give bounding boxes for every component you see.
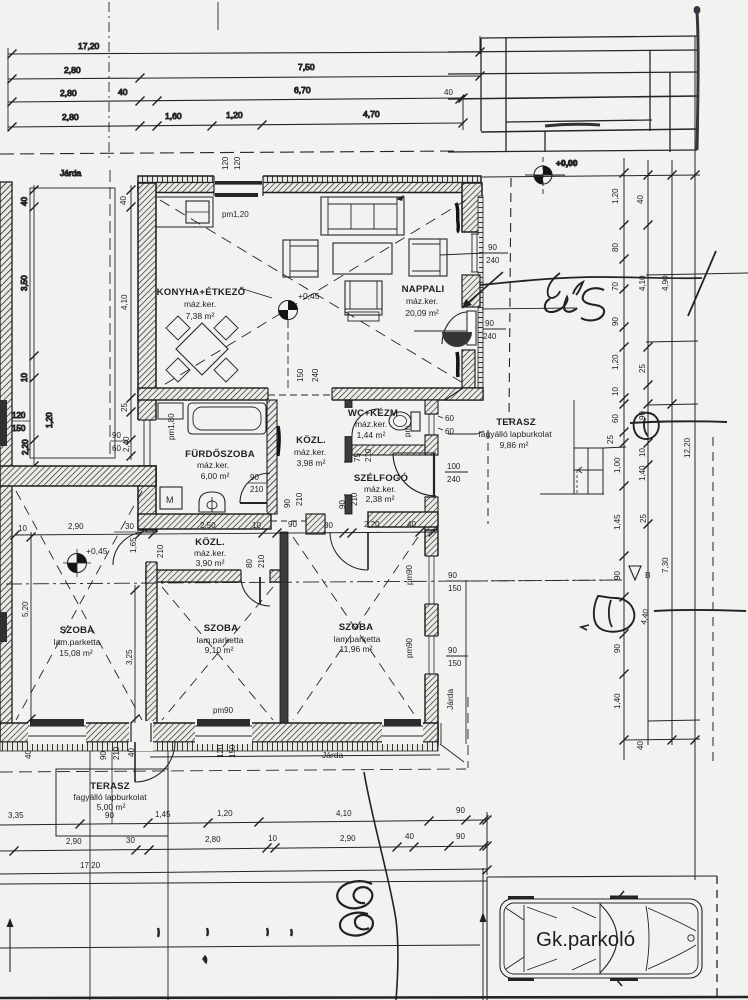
pen stroke on wall <box>278 426 279 456</box>
terasz box <box>56 769 168 836</box>
east wall of wing x425-438 y530-745 <box>425 530 438 745</box>
svg-text:240: 240 <box>311 368 320 382</box>
svg-text:1,44 m²: 1,44 m² <box>357 430 386 440</box>
svg-text:2,38 m²: 2,38 m² <box>366 494 395 504</box>
svg-text:11,96 m²: 11,96 m² <box>340 644 373 654</box>
svg-text:SZOBA: SZOBA <box>204 623 239 634</box>
svg-text:pm90: pm90 <box>405 564 414 585</box>
diagonal pen stroke right <box>688 251 716 316</box>
svg-text:60: 60 <box>112 444 121 453</box>
stub pier <box>306 514 325 534</box>
dash-dot axis to szelfogo <box>471 580 622 581</box>
svg-text:lam.parketta: lam.parketta <box>197 635 244 645</box>
svg-text:90: 90 <box>456 832 465 841</box>
open passage 271-306 <box>271 520 306 522</box>
svg-text:90: 90 <box>456 806 465 815</box>
dim line 17,20 total <box>8 52 480 54</box>
svg-text:9,86 m²: 9,86 m² <box>500 440 529 450</box>
+0,00 marker <box>525 157 578 194</box>
left boundary wall <box>0 168 115 745</box>
svg-text:10: 10 <box>611 387 620 396</box>
chain A x=624 <box>623 158 625 760</box>
svg-text:40: 40 <box>636 741 645 750</box>
left wall dims: 40 4,10 25 etc <box>127 185 136 461</box>
svg-text:40: 40 <box>118 87 128 97</box>
up arrow left <box>9 922 11 972</box>
left wall of house <box>138 183 156 486</box>
svg-text:90: 90 <box>105 811 114 820</box>
oval scribble over 90 <box>634 413 659 439</box>
svg-text:1,40: 1,40 <box>613 693 622 709</box>
site grid top right <box>444 6 700 152</box>
svg-text:90: 90 <box>613 571 622 580</box>
left dim line vertical <box>33 185 35 470</box>
short horizontal helper lines <box>646 273 748 275</box>
svg-text:2,20: 2,20 <box>364 520 380 529</box>
planting strip rectangle <box>30 188 115 458</box>
svg-text:+0,00: +0,00 <box>556 158 578 168</box>
rear deck lines <box>648 908 696 931</box>
svg-text:máz.ker.: máz.ker. <box>184 299 216 309</box>
svg-text:Gk.parkoló: Gk.parkoló <box>536 928 635 951</box>
svg-text:pm1,20: pm1,20 <box>222 210 249 219</box>
svg-text:NAPPALI: NAPPALI <box>402 284 445 295</box>
D3 entry door arc <box>393 453 436 496</box>
long horizontal lines <box>0 881 487 884</box>
svg-text:2,80: 2,80 <box>60 88 77 98</box>
svg-text:40: 40 <box>407 520 416 529</box>
section axis <box>6 580 622 584</box>
svg-text:1,45: 1,45 <box>155 810 171 819</box>
svg-text:3,90 m²: 3,90 m² <box>196 558 225 568</box>
svg-text:1,20: 1,20 <box>611 188 620 204</box>
svg-text:6,00 m²: 6,00 m² <box>201 471 230 481</box>
bottom dim chain 2 y=848 <box>0 846 487 851</box>
window W2 in left wall <box>137 420 157 466</box>
svg-text:90: 90 <box>99 751 108 760</box>
svg-text:2,20: 2,20 <box>21 439 30 455</box>
svg-text:10: 10 <box>20 373 29 382</box>
svg-text:120: 120 <box>221 156 230 170</box>
svg-text:120: 120 <box>216 744 225 758</box>
vertical axis at kitchen/nappali border <box>287 320 289 392</box>
svg-text:4,10: 4,10 <box>120 294 129 310</box>
svg-text:90: 90 <box>448 646 457 655</box>
left verticals <box>89 751 91 1000</box>
wall under szelfogo <box>368 512 438 527</box>
svg-text:12,20: 12,20 <box>683 437 692 458</box>
svg-text:210: 210 <box>364 448 373 462</box>
FÜRDŐ east wall x267-277 <box>267 400 277 514</box>
svg-text:pm: pm <box>403 426 412 437</box>
svg-text:60: 60 <box>445 414 454 423</box>
svg-text:3,25: 3,25 <box>125 649 134 665</box>
corner block bottom right of nappali <box>445 388 483 400</box>
svg-text:6,70: 6,70 <box>294 85 311 95</box>
window W3 right wall <box>470 234 479 272</box>
svg-text:KÖZL.: KÖZL. <box>195 537 225 548</box>
svg-text:210: 210 <box>257 554 266 568</box>
svg-text:150: 150 <box>12 424 26 433</box>
cabin <box>523 905 525 972</box>
WC east wall with window W4 <box>425 400 438 414</box>
svg-text:90: 90 <box>613 644 622 653</box>
svg-text:fagyálló lapburkolat: fagyálló lapburkolat <box>478 429 552 439</box>
svg-text:9,10 m²: 9,10 m² <box>205 645 234 655</box>
middle wall between szoba910 and szoba1196 x277-288 <box>280 532 288 728</box>
svg-text:1,20: 1,20 <box>226 110 243 120</box>
svg-text:90: 90 <box>288 520 297 529</box>
wavy line across right <box>480 277 702 285</box>
top wall of house <box>138 176 481 183</box>
pen dark scribbles in NE corner <box>456 203 459 232</box>
svg-text:150: 150 <box>296 368 305 382</box>
armchair left <box>283 240 318 277</box>
chain B x=648 <box>647 160 649 745</box>
svg-text:90: 90 <box>611 317 620 326</box>
svg-text:40: 40 <box>20 197 29 206</box>
window W1 in top wall <box>214 175 263 194</box>
svg-text:2,80: 2,80 <box>64 65 81 75</box>
+0,45 szoba15 <box>63 546 108 577</box>
small pen arrow top <box>396 195 404 201</box>
svg-text:máz.ker.: máz.ker. <box>197 460 229 470</box>
left margin stub <box>7 48 9 130</box>
svg-text:1,20: 1,20 <box>611 354 620 370</box>
svg-text:pm1,80: pm1,80 <box>167 413 176 440</box>
svg-text:2,90: 2,90 <box>340 834 356 843</box>
svg-text:90: 90 <box>112 431 121 440</box>
svg-text:3,98 m²: 3,98 m² <box>297 458 326 468</box>
washing machine <box>160 487 182 509</box>
svg-text:25: 25 <box>639 514 648 523</box>
left wall lower part <box>138 466 156 530</box>
svg-text:70: 70 <box>611 282 620 291</box>
D7 arc into szoba15 <box>113 532 146 565</box>
west wing top wall <box>0 466 156 486</box>
svg-text:2,50: 2,50 <box>200 521 216 530</box>
svg-text:40: 40 <box>24 750 33 759</box>
bottom wall y723-745 <box>0 723 438 742</box>
svg-text:SZOBA: SZOBA <box>339 622 374 633</box>
internal dim line above szoba row y533 <box>11 528 438 540</box>
svg-text:TERASZ: TERASZ <box>496 417 536 428</box>
chair below table <box>345 281 382 315</box>
D2 WC door arc <box>352 409 379 436</box>
svg-text:150: 150 <box>448 659 462 668</box>
svg-text:+0,45: +0,45 <box>298 291 320 301</box>
sink <box>199 492 225 512</box>
D6 arc <box>241 577 270 606</box>
svg-text:120: 120 <box>12 411 26 420</box>
svg-text:240: 240 <box>483 332 497 341</box>
"ús" handwriting <box>545 297 577 312</box>
svg-text:1,65: 1,65 <box>129 537 138 553</box>
+0,45 nappali <box>240 288 320 320</box>
svg-text:SZOBA: SZOBA <box>60 625 95 636</box>
svg-text:10: 10 <box>268 834 277 843</box>
svg-text:80: 80 <box>245 559 254 568</box>
svg-text:2,80: 2,80 <box>62 112 79 122</box>
svg-text:+0,45: +0,45 <box>86 546 108 556</box>
windshield arc <box>600 904 617 973</box>
svg-text:25: 25 <box>606 435 615 444</box>
svg-text:15,08 m²: 15,08 m² <box>59 648 93 658</box>
svg-text:máz.ker.: máz.ker. <box>194 548 226 558</box>
long curved road line <box>364 772 398 1000</box>
svg-text:90: 90 <box>488 243 497 252</box>
top dimension chain group <box>0 2 485 162</box>
chain D x=695 <box>694 36 696 880</box>
svg-text:75: 75 <box>353 453 362 462</box>
big scribble bottom left of parking <box>337 881 372 908</box>
corridor east wall x344-352 <box>345 400 352 514</box>
dim line 2,80 / 40 / 6,70 <box>8 98 463 102</box>
svg-text:210: 210 <box>112 746 121 760</box>
bathtub <box>188 403 266 434</box>
svg-text:25: 25 <box>638 364 647 373</box>
svg-text:2,90: 2,90 <box>68 522 84 531</box>
wheels bumps <box>508 896 534 899</box>
svg-text:90: 90 <box>250 473 259 482</box>
windows in bottom wall <box>28 721 86 744</box>
svg-text:1,20: 1,20 <box>45 412 54 428</box>
svg-text:40: 40 <box>405 832 414 841</box>
svg-text:7,30: 7,30 <box>661 557 670 573</box>
svg-text:30: 30 <box>324 521 333 530</box>
svg-text:2,80: 2,80 <box>205 835 221 844</box>
svg-text:17,20: 17,20 <box>78 41 100 51</box>
rounded rect scribble mid right <box>594 596 635 632</box>
svg-text:40: 40 <box>636 195 645 204</box>
D8 door opening to terasz <box>129 721 153 751</box>
door D10 (90/240) leaf <box>467 311 476 345</box>
svg-text:pm90: pm90 <box>213 706 234 715</box>
horizontal connector from house top right <box>482 175 700 177</box>
5,20 and 3,25 vertical dims in szoba row <box>27 532 140 724</box>
svg-text:150: 150 <box>448 584 462 593</box>
kitchen corner counter <box>156 197 213 227</box>
svg-text:210: 210 <box>250 485 264 494</box>
svg-text:M: M <box>166 495 174 505</box>
armchair right <box>409 239 447 276</box>
chain C x=672 <box>671 160 673 745</box>
svg-text:210: 210 <box>156 544 165 558</box>
right wall piece below doors <box>462 350 475 388</box>
svg-text:80: 80 <box>611 243 620 252</box>
dashed verticals in strip <box>109 170 111 455</box>
toilet <box>389 412 411 430</box>
svg-text:10: 10 <box>252 521 261 530</box>
pier between window and door <box>462 275 480 307</box>
leader lines for terasz text <box>448 433 477 435</box>
corridor opening in that wall <box>268 386 332 402</box>
svg-text:210: 210 <box>350 492 359 506</box>
svg-text:30: 30 <box>126 836 135 845</box>
svg-text:máz.ker.: máz.ker. <box>364 484 396 494</box>
bottom dim chain 3 y=872 <box>0 869 487 874</box>
jarda lines along bottom <box>150 755 440 757</box>
svg-text:2,40: 2,40 <box>122 436 131 452</box>
bottom dim chain 1 y=823 <box>0 820 487 825</box>
svg-text:30: 30 <box>125 522 134 531</box>
svg-text:KÖZL.: KÖZL. <box>296 435 326 446</box>
svg-text:lam.parketta: lam.parketta <box>334 634 381 644</box>
WC/SZÉLFOGÓ divider wall y445-455 <box>352 445 425 455</box>
SZÉLFOGÓ east wall <box>425 497 438 530</box>
svg-text:120: 120 <box>233 156 242 170</box>
dashed line below house <box>0 769 466 772</box>
svg-text:20,09 m²: 20,09 m² <box>405 308 439 318</box>
svg-text:90: 90 <box>485 319 494 328</box>
svg-text:2,90: 2,90 <box>66 837 82 846</box>
riser at x=487 <box>486 812 488 875</box>
svg-text:1,45: 1,45 <box>613 514 622 530</box>
wall y388-400 (bottom of KONYHA/NAPPALI band) <box>138 388 483 400</box>
chairs <box>166 316 190 340</box>
svg-text:90: 90 <box>448 571 457 580</box>
brick column outside right wall <box>478 196 483 396</box>
svg-text:máz.ker.: máz.ker. <box>406 296 438 306</box>
terasz dashed boundary <box>509 178 511 420</box>
svg-text:Járda: Járda <box>445 688 455 710</box>
front hood lines <box>506 908 524 969</box>
curve near top of that <box>548 273 560 298</box>
svg-text:pm90: pm90 <box>405 637 414 658</box>
svg-text:1,60: 1,60 <box>165 111 182 121</box>
svg-text:1,20: 1,20 <box>217 809 233 818</box>
D9 door arc into szoba 11,96 <box>330 532 368 570</box>
svg-text:5,20: 5,20 <box>21 601 30 617</box>
svg-text:60: 60 <box>611 414 620 423</box>
kitchen sink <box>186 201 209 223</box>
svg-text:4,70: 4,70 <box>363 109 380 119</box>
wall y514-530 horizontal: segment under bathroom <box>138 514 271 529</box>
sofa <box>321 197 404 235</box>
svg-text:100: 100 <box>447 462 461 471</box>
svg-text:Járda: Járda <box>322 750 344 760</box>
svg-text:Járda: Járda <box>60 168 82 178</box>
svg-text:60: 60 <box>445 427 454 436</box>
door D11 filled swing below <box>442 332 472 347</box>
section triangle B <box>629 566 641 580</box>
svg-text:1,40: 1,40 <box>638 465 647 481</box>
svg-text:40: 40 <box>127 748 136 757</box>
svg-text:máz.ker.: máz.ker. <box>294 447 326 457</box>
dim line 2,80 / 7,50 <box>8 76 480 79</box>
small pen marks above line <box>157 928 160 937</box>
coffee table <box>333 243 392 274</box>
svg-text:90: 90 <box>283 499 292 508</box>
svg-text:25: 25 <box>120 403 129 412</box>
svg-text:210: 210 <box>295 492 304 506</box>
svg-text:240: 240 <box>486 256 500 265</box>
svg-text:240: 240 <box>447 475 461 484</box>
pen mark thick vertical <box>697 12 698 150</box>
dim line 2,80 / 1,60 / 1,20 / 4,70 <box>8 123 463 127</box>
svg-text:fagyálló lapburkolat: fagyálló lapburkolat <box>73 792 147 802</box>
svg-text:lam.parketta: lam.parketta <box>54 637 101 647</box>
svg-text:SZÉLFOGÓ: SZÉLFOGÓ <box>354 472 409 484</box>
svg-text:4,10: 4,10 <box>336 809 352 818</box>
svg-text:7,38 m²: 7,38 m² <box>186 311 215 321</box>
svg-text:KONYHA+ÉTKEZŐ: KONYHA+ÉTKEZŐ <box>157 286 246 298</box>
windows W9 W10 <box>424 556 439 604</box>
svg-text:FÜRDŐSZOBA: FÜRDŐSZOBA <box>185 448 255 460</box>
dashed vertical right low <box>712 437 714 762</box>
svg-text:10: 10 <box>18 524 27 533</box>
svg-text:máz.ker.: máz.ker. <box>355 419 387 429</box>
rear window line <box>646 906 649 971</box>
KÖZL2 / SZOBA910 wall y570-582 <box>146 570 287 582</box>
right wall of NAPPALI (upper hatched part) <box>462 183 482 232</box>
svg-text:40: 40 <box>119 196 128 205</box>
SZOBA15/SZOBA910 wall x146-157 <box>146 530 157 728</box>
svg-text:WC+KÉZM: WC+KÉZM <box>348 407 398 419</box>
svg-text:7,50: 7,50 <box>298 62 315 72</box>
pen arrow over pier <box>462 272 503 308</box>
dining table (diamond) <box>176 323 228 375</box>
roof x lines <box>527 907 596 970</box>
car top view <box>500 891 702 986</box>
door D1 in bottom wall of bathroom <box>240 512 267 531</box>
svg-text:3,50: 3,50 <box>20 275 29 291</box>
svg-text:40: 40 <box>444 88 453 97</box>
svg-text:TERASZ: TERASZ <box>90 781 130 792</box>
svg-text:90: 90 <box>338 500 347 509</box>
svg-text:1,00: 1,00 <box>613 457 622 473</box>
mirror <box>618 891 624 898</box>
property dashed line <box>0 151 460 154</box>
axis dash-dot vertical top <box>108 2 110 162</box>
svg-text:3,35: 3,35 <box>8 811 24 820</box>
svg-text:10: 10 <box>638 448 647 457</box>
